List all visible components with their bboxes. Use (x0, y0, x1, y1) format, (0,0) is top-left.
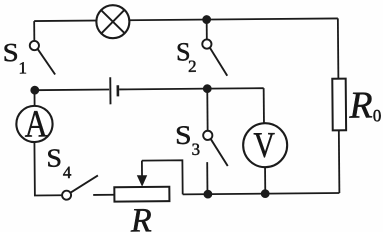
rheostat wiper arrow (137, 161, 148, 187)
wire stub to S3 (206, 89, 208, 131)
svg-text:S: S (46, 144, 62, 173)
node middle junction (203, 84, 212, 93)
wire middle left (35, 89, 109, 92)
node junction left (middle wire) (30, 86, 39, 95)
svg-text:R: R (348, 84, 373, 126)
svg-text:1: 1 (18, 58, 27, 77)
wire S3 lower stub (206, 162, 208, 194)
svg-text:S: S (175, 120, 192, 150)
resistor R0 box (332, 79, 346, 131)
switch S3 (203, 131, 228, 167)
svg-text:0: 0 (373, 106, 382, 125)
ammeter A (16, 103, 53, 145)
switch S4 (62, 175, 98, 199)
wire middle right (119, 88, 207, 91)
battery cell (110, 77, 118, 104)
switch S2 (202, 39, 227, 76)
wire wiper return (142, 160, 183, 194)
wire top (34, 18, 338, 21)
node top junction (S2 tap) (202, 15, 211, 24)
wire right bottom drop (338, 130, 341, 193)
wire voltmeter top drop (263, 88, 265, 123)
svg-text:R: R (130, 202, 152, 232)
rheostat R box (114, 187, 169, 202)
svg-text:S: S (3, 38, 19, 67)
ammeter top stub (33, 90, 35, 106)
svg-text:2: 2 (188, 57, 197, 76)
lamp (96, 5, 129, 38)
svg-text:A: A (24, 103, 48, 145)
wire stub to S2 (206, 20, 208, 40)
voltmeter V (243, 123, 287, 167)
wire bottom (183, 193, 340, 194)
node bottom S3 junction (203, 190, 212, 199)
wire right top drop (337, 18, 340, 78)
wire ammeter down + corner (34, 142, 62, 196)
wire left drop to S1 (33, 21, 35, 41)
wire middle to voltmeter corner (207, 87, 263, 89)
wire voltmeter bottom stub (264, 167, 266, 193)
svg-text:3: 3 (192, 140, 201, 159)
node bottom voltmeter junction (261, 189, 270, 198)
wire S4 fixed side to rheostat (93, 194, 114, 196)
svg-text:V: V (253, 125, 275, 165)
svg-text:4: 4 (63, 163, 72, 182)
switch S1 (30, 41, 55, 75)
